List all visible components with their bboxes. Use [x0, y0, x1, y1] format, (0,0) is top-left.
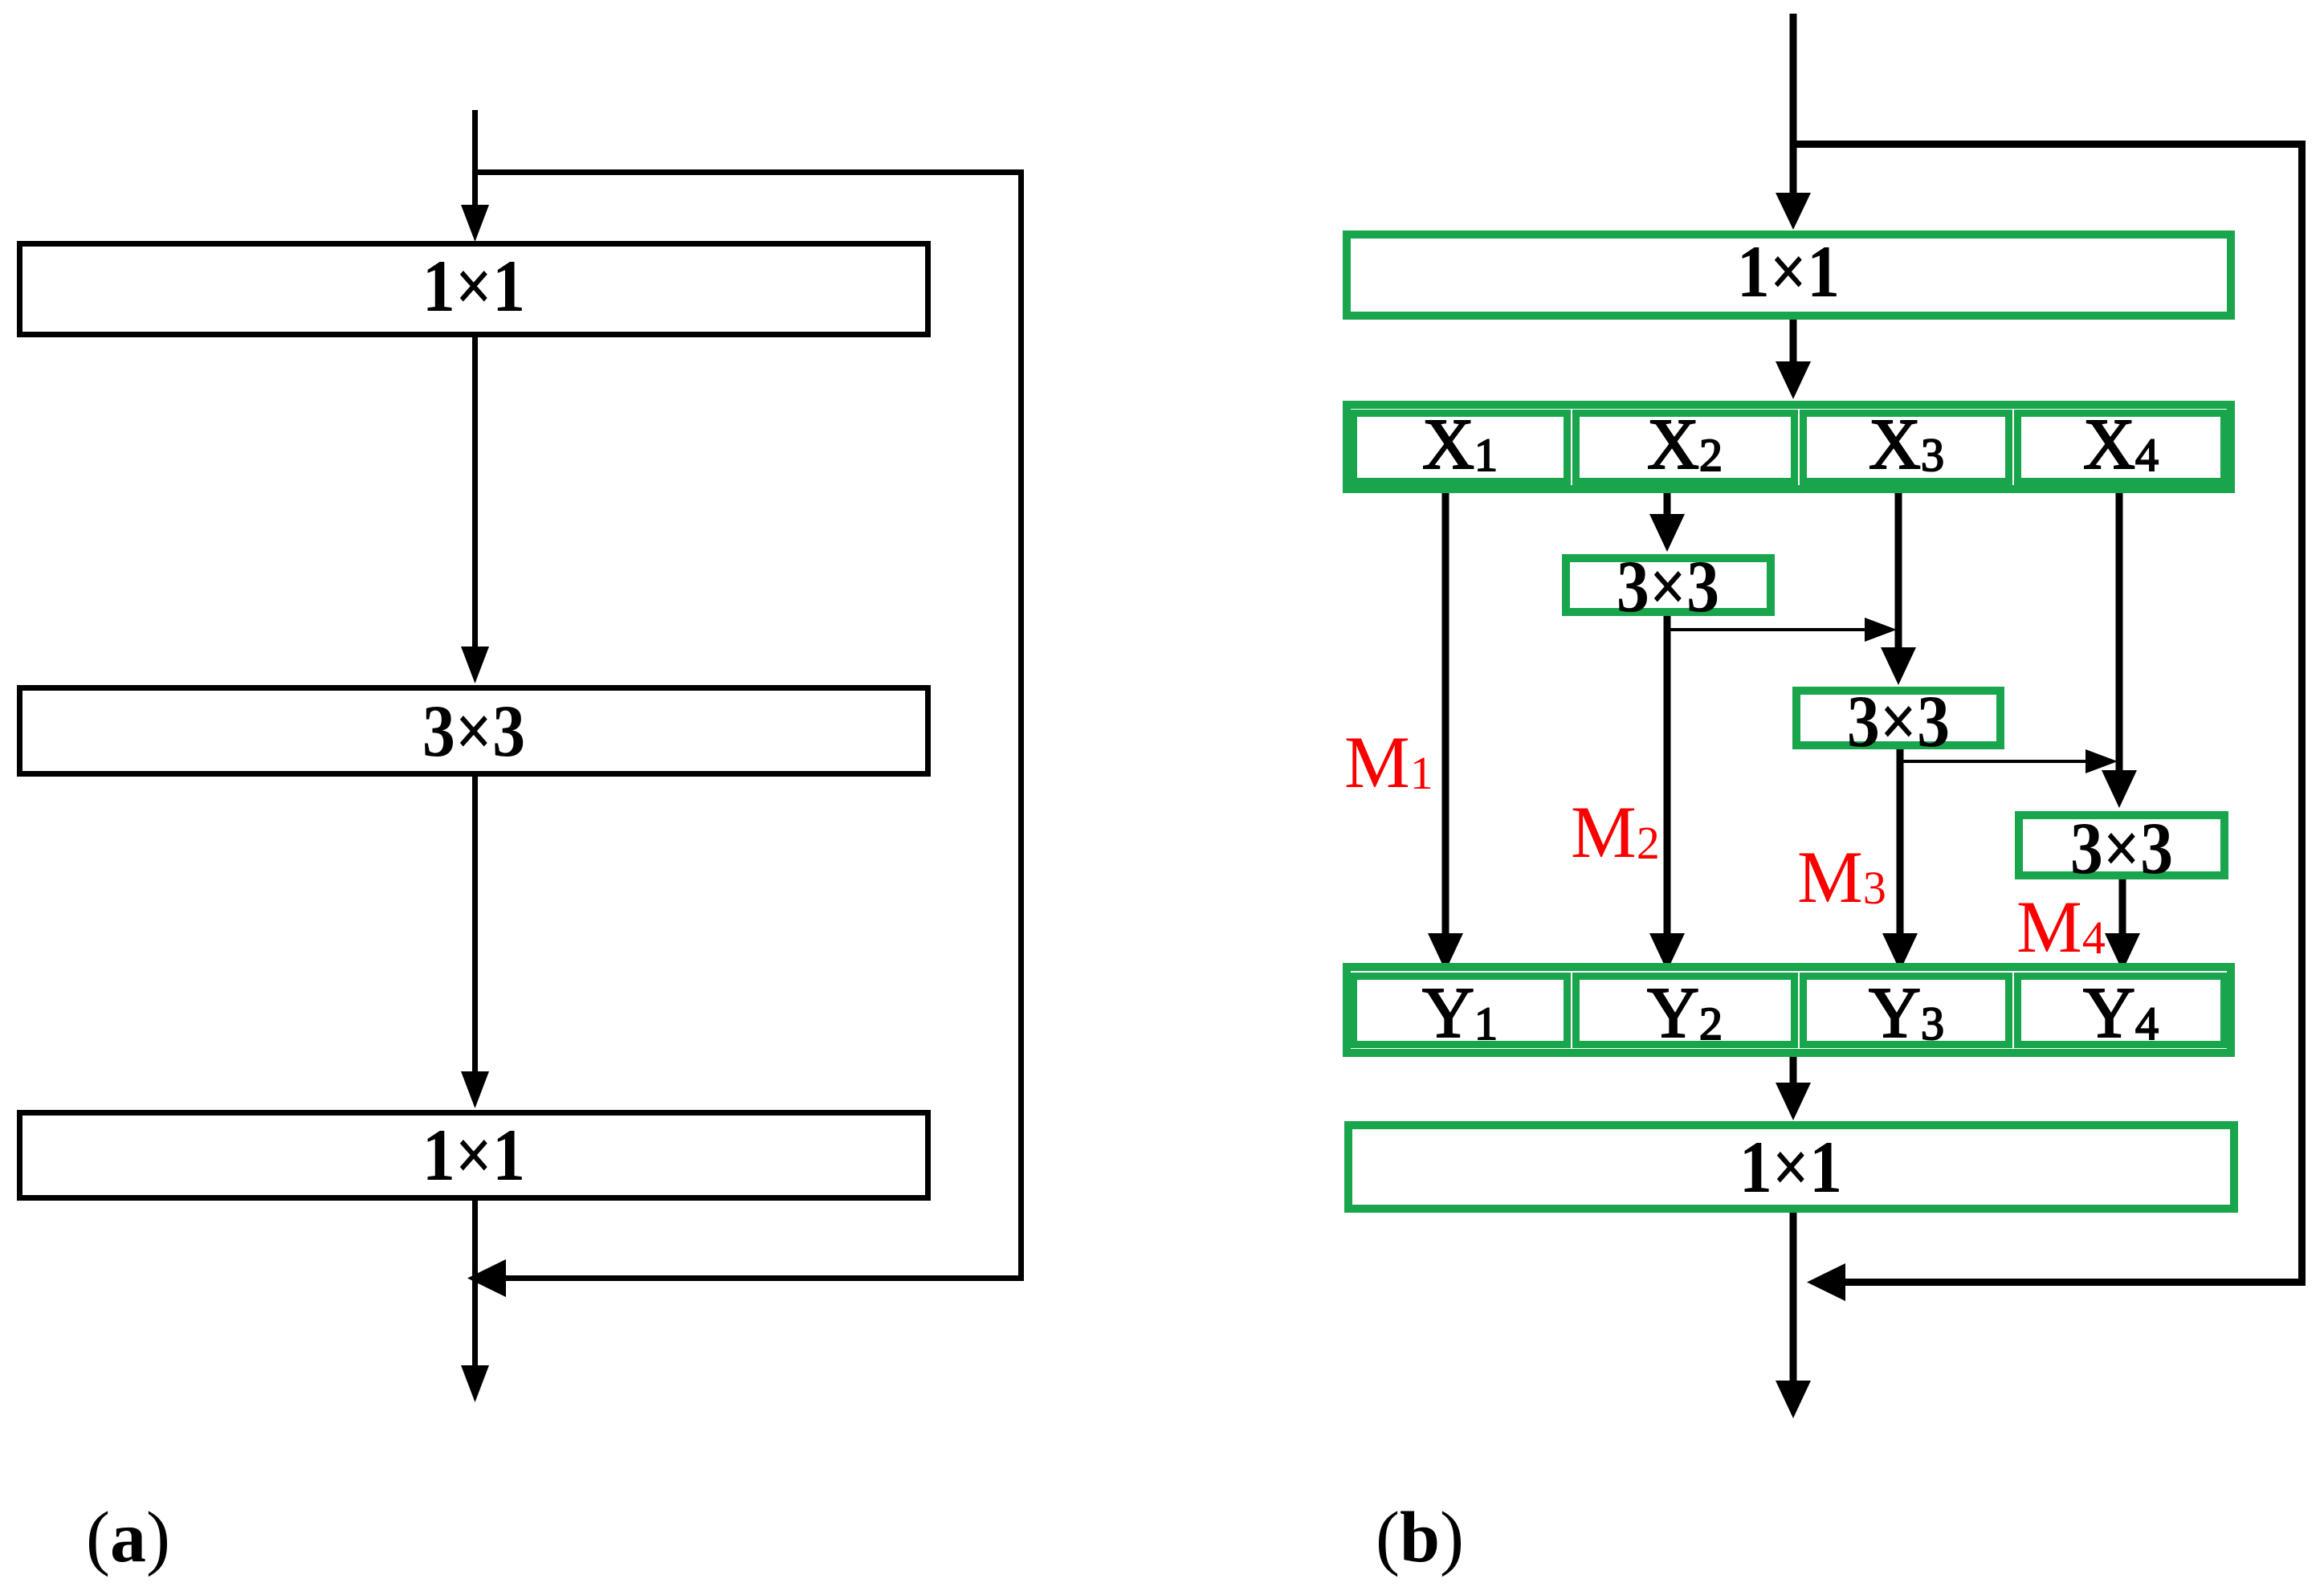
arrowhead: into first 3x3 (b) [1649, 514, 1685, 552]
arrowhead: into Y2 (b) [1649, 933, 1685, 971]
arrowhead: into second 3x3 (b) [1881, 647, 1916, 685]
arrowhead: branch pointing right into X3 wire [1865, 618, 1897, 642]
box: third 3x3 (b) [2019, 815, 2224, 875]
svg-text:3×3: 3×3 [2070, 807, 2173, 889]
arrowhead: into bottom 1x1 (a) [461, 1071, 489, 1108]
wire: skip connection right vertical (b) [2298, 141, 2306, 1286]
wire: 3x3 to bottom 1x1 (a) [472, 777, 478, 1072]
box: conv 3x3 middle (a) [20, 688, 928, 774]
arrowhead: output (b) [1776, 1381, 1811, 1418]
box: conv 1x1 bottom (b) [1348, 1125, 2234, 1209]
wire: input vertical line (b) [1790, 14, 1797, 194]
wire: output vertical (b) [1790, 1213, 1797, 1381]
svg-text:3×3: 3×3 [422, 690, 525, 772]
box: split row outer (b) [1347, 405, 2231, 489]
arrowhead: input into top 1x1 box (a) [461, 205, 489, 242]
wire: concat row to bottom 1x1 (b) [1790, 1057, 1797, 1083]
box: cell Y2 [1576, 977, 1795, 1045]
box: cell X2 [1576, 414, 1795, 482]
box: cell X4 [2018, 414, 2224, 482]
box: conv 1x1 top (b) [1347, 235, 2231, 316]
wire: second 3x3 output down to Y3 (b) [1897, 749, 1904, 933]
wire: second 3x3 branch horizontal to X4 wire (thin) [1897, 760, 2086, 763]
arrowhead: into third 3x3 (b) [2102, 770, 2137, 808]
wire: X3 into second 3x3 (b) [1895, 493, 1902, 647]
arrowhead: skip pointing left into output wire (b) [1807, 1263, 1845, 1301]
arrowhead: into split row (b) [1776, 361, 1811, 399]
box: first 3x3 (b) [1566, 558, 1771, 612]
svg-text:1×1: 1×1 [422, 245, 525, 327]
arrowhead: into Y1 (b) [1428, 933, 1463, 971]
wire: skip connection bottom horizontal (a) [504, 1275, 1024, 1281]
wire: input vertical line (a) [472, 110, 478, 206]
wire: 1x1 to 3x3 (a) [472, 337, 478, 647]
wire: X1 to Y1 (b) [1442, 493, 1449, 933]
wire: first 3x3 branch horizontal to X3 wire (thin) [1664, 628, 1865, 631]
arrowhead: output (a) [461, 1365, 489, 1402]
svg-text:1×1: 1×1 [1739, 1126, 1842, 1208]
svg-text:1×1: 1×1 [422, 1114, 525, 1196]
arrowhead: into 3x3 (a) [461, 647, 489, 683]
wire: skip branch horizontal (b) [1790, 141, 2306, 148]
arrowhead: input into top 1x1 (b) [1776, 193, 1811, 230]
wire: 1x1 to split row (b) [1790, 320, 1797, 362]
wire: first 3x3 output down to Y2 (b) [1664, 616, 1671, 933]
wire: output vertical (a) [472, 1201, 478, 1365]
arrowhead: into Y3 (b) [1882, 933, 1918, 971]
svg-text:1×1: 1×1 [1737, 230, 1840, 312]
svg-text:3×3: 3×3 [1617, 545, 1719, 627]
arrowhead: branch pointing right into X4 wire [2085, 749, 2118, 773]
box: cell Y3 [1804, 977, 2009, 1045]
box: concat row outer (b) [1347, 967, 2231, 1053]
box: cell Y4 [2018, 977, 2224, 1045]
box: second 3x3 (b) [1796, 691, 2000, 745]
wire: X2 into first 3x3 (b) [1664, 493, 1671, 515]
box: cell Y1 [1354, 977, 1568, 1045]
arrowhead: into Y4 (b) [2105, 933, 2140, 971]
wire: skip connection right vertical (a) [1018, 169, 1024, 1281]
arrowhead: skip connection pointing left into output wire (a) [467, 1259, 506, 1297]
svg-text:(b): (b) [1376, 1498, 1464, 1577]
wire: skip connection bottom horizontal (b) [1844, 1279, 2306, 1286]
box: conv 1x1 bottom (a) [20, 1113, 928, 1198]
box: conv 1x1 top (a) [20, 244, 928, 335]
arrowhead: into bottom 1x1 (b) [1776, 1083, 1811, 1120]
wire: skip branch horizontal (a) [472, 169, 1024, 175]
box: cell X3 [1804, 414, 2009, 482]
wire: third 3x3 output down to Y4 (b) [2119, 879, 2126, 933]
box: cell X1 [1354, 414, 1568, 482]
wire: X4 into third 3x3 (b) [2116, 493, 2123, 770]
svg-text:(a): (a) [86, 1498, 170, 1577]
